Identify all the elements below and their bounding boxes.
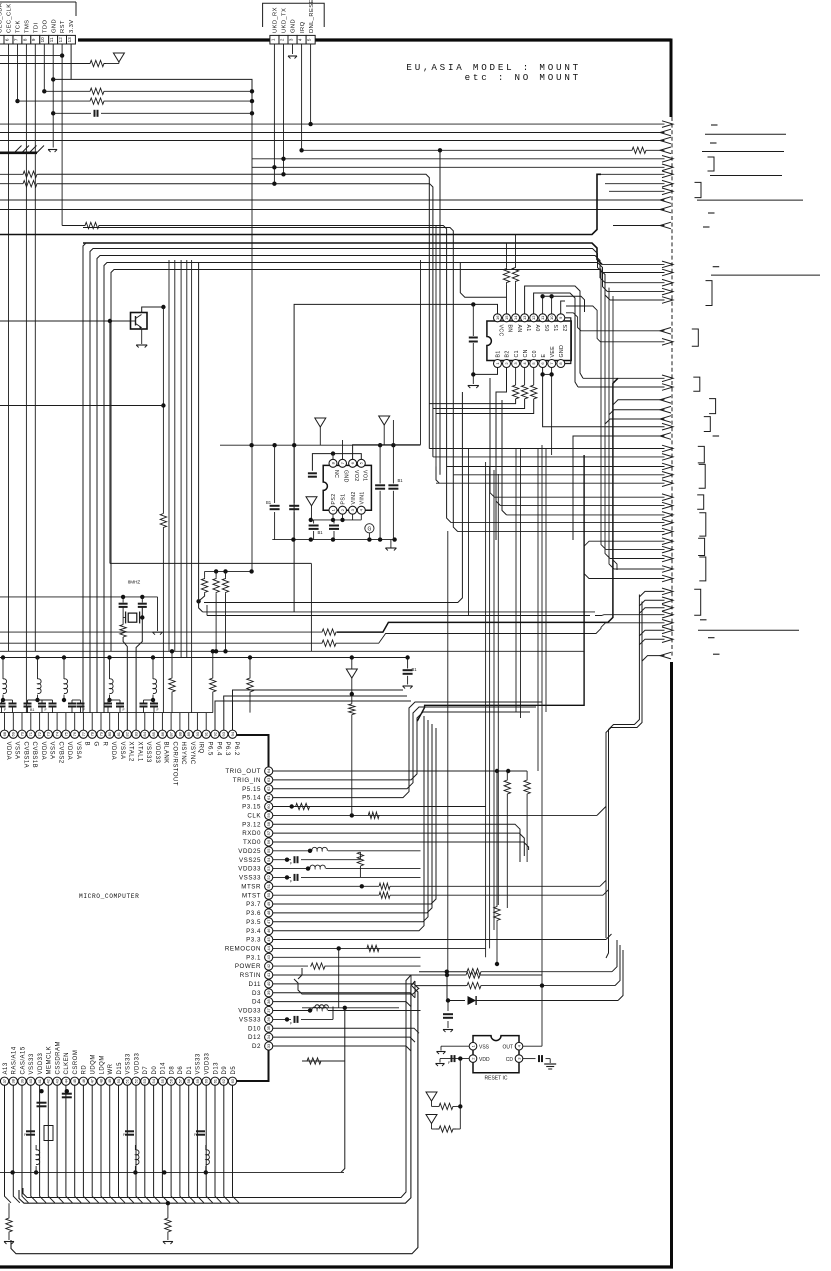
svg-text:D4: D4	[252, 999, 261, 1006]
node junction pin12/row55	[60, 53, 64, 57]
wire row113a	[53, 112, 91, 114]
resistor R_irq	[631, 147, 647, 153]
wire caplink2	[28, 699, 53, 701]
net label mark G8b	[700, 619, 707, 621]
off-page arrow net622	[662, 620, 673, 627]
svg-text:C0: C0	[532, 350, 538, 357]
wire xtal gnd stub	[157, 597, 159, 631]
svg-text:MEMCLK: MEMCLK	[47, 1046, 53, 1075]
wire P5.15	[273, 707, 536, 789]
svg-text:91: 91	[204, 731, 209, 736]
wire CN1 pin11	[52, 44, 54, 148]
power symbol V1	[113, 53, 124, 62]
wire vertical x489	[489, 466, 491, 948]
node j rail a	[291, 537, 295, 541]
wire cap col380b	[379, 491, 381, 540]
wire vertical x520b	[520, 448, 522, 718]
off-page arrow net409	[660, 406, 671, 413]
wire x605 down	[605, 279, 610, 559]
net label bracket G6a	[698, 446, 705, 463]
off-page arrow net456	[662, 454, 673, 461]
node j vss33r	[285, 875, 289, 879]
node j vss25	[285, 858, 289, 862]
svg-text:P5.15: P5.15	[242, 786, 261, 793]
svg-text:CLKEN: CLKEN	[64, 1052, 70, 1075]
svg-text:AN: AN	[516, 325, 522, 333]
node j u2 p7	[549, 372, 553, 376]
resistor R_p15	[503, 267, 509, 284]
node j p315	[290, 804, 294, 808]
svg-text:VSSA: VSSA	[119, 742, 125, 760]
svg-text:8: 8	[22, 38, 27, 41]
svg-text:RST: RST	[60, 20, 66, 33]
wire net522	[447, 467, 665, 523]
node j coil3 bot	[107, 698, 111, 702]
node j rail2 end	[405, 655, 409, 659]
wires U1 bottom pins to bus	[5, 1085, 240, 1202]
wire g8 bundle main	[606, 595, 639, 959]
wire net497	[490, 378, 665, 497]
wire R_p14 dn	[515, 283, 517, 314]
svg-text:NC: NC	[333, 470, 339, 478]
wire D3	[273, 993, 415, 998]
capacitor C_nc	[308, 473, 317, 476]
wire net971	[419, 969, 612, 975]
wire P3.12	[273, 824, 520, 862]
net label bracket G6b	[699, 464, 706, 488]
resistor R_tdo	[88, 88, 106, 94]
wire net531	[453, 475, 664, 532]
wire P3.6	[273, 724, 432, 913]
filter cluster 2	[123, 1131, 139, 1174]
svg-text:64: 64	[266, 768, 271, 773]
wire net1061	[302, 1058, 345, 1064]
wire U2 pin9 up	[561, 301, 565, 314]
node j row101	[15, 99, 19, 103]
ground U4 VDD	[436, 1064, 445, 1067]
svg-text:VCC: VCC	[498, 325, 504, 337]
crystal X1	[123, 612, 142, 624]
node j n985	[540, 983, 544, 987]
inductor L5	[153, 658, 157, 701]
svg-text:75: 75	[63, 731, 68, 736]
svg-text:XTAL1: XTAL1	[136, 742, 142, 763]
wire net558	[610, 558, 665, 560]
wire net615	[207, 605, 590, 616]
wire vertical x109	[109, 321, 111, 563]
wire net474	[453, 474, 664, 476]
svg-text:72: 72	[37, 731, 42, 736]
node j xt1	[121, 595, 125, 599]
svg-text:34: 34	[266, 1034, 271, 1039]
svg-text:XTAL2: XTAL2	[128, 742, 134, 763]
wire peel net639	[639, 639, 664, 645]
svg-text:VO2: VO2	[353, 470, 359, 482]
svg-text:COR/RSTOUT: COR/RSTOUT	[171, 742, 177, 787]
wire net174b	[601, 173, 665, 175]
capacitor Cd9	[116, 700, 126, 713]
node j coil1 bot	[35, 698, 39, 702]
svg-text:PS2: PS2	[331, 493, 337, 504]
svg-text:5: 5	[0, 38, 1, 41]
svg-text:VDDA: VDDA	[110, 742, 116, 761]
node j mtsr	[360, 884, 364, 888]
svg-text:51: 51	[125, 1078, 130, 1083]
wire CN1 pin12	[61, 44, 63, 226]
svg-text:D5: D5	[231, 1066, 237, 1075]
wire xt2 a	[141, 597, 143, 603]
wire net227	[83, 228, 453, 475]
svg-text:89: 89	[186, 731, 191, 736]
svg-text:52: 52	[266, 874, 271, 879]
svg-text:CSROM: CSROM	[73, 1050, 79, 1075]
wire net167	[252, 166, 665, 168]
wire net174	[0, 171, 429, 448]
wire CN2 pin5 DNL_RESET	[310, 44, 312, 124]
capacitor C_u3f	[388, 478, 403, 489]
wire bus v411	[410, 975, 412, 1007]
svg-text:84: 84	[142, 731, 147, 736]
transistor Q1	[131, 313, 148, 330]
svg-text:BN: BN	[507, 325, 513, 333]
off-page arrow net600	[662, 597, 673, 604]
diode D1	[468, 996, 477, 1005]
node j coil0 bot	[1, 698, 5, 702]
svg-text:VSS33: VSS33	[196, 1053, 202, 1074]
svg-text:55: 55	[160, 1078, 165, 1083]
off-page arrow net614	[662, 611, 673, 618]
node j ra3	[223, 649, 227, 653]
node j rail f	[392, 537, 396, 541]
svg-text:WR: WR	[108, 1063, 114, 1074]
op-amp U3 8-pin	[323, 459, 371, 514]
svg-text:B2: B2	[505, 350, 511, 357]
off-page arrow net291	[662, 288, 673, 295]
svg-text:VSS: VSS	[479, 1045, 490, 1051]
svg-text:VDD: VDD	[479, 1057, 490, 1063]
capacitor C_u3b	[289, 506, 299, 509]
svg-text:UKD_RX: UKD_RX	[273, 7, 279, 33]
wire Q1 collector	[142, 307, 164, 313]
off-page arrow net578	[662, 575, 673, 582]
wire net291	[608, 291, 665, 293]
node j2 row113	[250, 111, 254, 115]
svg-text:MTSR: MTSR	[241, 883, 261, 890]
svg-text:14: 14	[513, 315, 518, 320]
wire U4 VSS	[441, 1045, 469, 1047]
svg-text:88: 88	[177, 731, 182, 736]
svg-text:MICRO_COMPUTER: MICRO_COMPUTER	[79, 893, 139, 900]
svg-text:53: 53	[266, 866, 271, 871]
node j coil1 top	[35, 655, 39, 659]
wire bus outer	[11, 986, 418, 1254]
wire bus wrapA	[294, 979, 419, 994]
power symbol V_clk	[346, 658, 357, 679]
wire x584 up	[417, 455, 584, 721]
node j rstin	[445, 973, 449, 977]
wire peel net600	[639, 600, 664, 606]
wire cap col380	[379, 445, 381, 483]
wire VDD33r	[273, 865, 421, 869]
svg-text:33: 33	[266, 1043, 271, 1048]
wire U4 CD gnd	[549, 1059, 551, 1063]
resistor R_to1	[504, 771, 510, 908]
off-page arrow net150	[660, 147, 671, 154]
off-page arrow net191	[662, 188, 673, 195]
wire P6.4 route	[215, 701, 411, 705]
wire bus wrapB	[19, 981, 415, 1203]
svg-text:GND: GND	[51, 19, 57, 33]
wire u2 p6p7	[543, 373, 552, 375]
ground U4 VSS	[437, 1052, 446, 1055]
svg-text:61: 61	[266, 795, 271, 800]
svg-text:RSTIN: RSTIN	[240, 972, 261, 979]
ground CN2	[288, 56, 297, 59]
net label mark G8c	[708, 637, 715, 639]
svg-text:36: 36	[266, 1016, 271, 1021]
node j u3c	[249, 443, 253, 447]
off-page arrow net183	[662, 180, 673, 187]
svg-text:37: 37	[266, 1008, 271, 1013]
svg-text:IRQ: IRQ	[198, 742, 204, 754]
wire x601 down	[601, 269, 606, 550]
wire net622 thick	[0, 378, 618, 635]
inductor L2	[38, 658, 42, 701]
wire net643	[0, 623, 665, 647]
svg-text:6: 6	[4, 38, 9, 41]
svg-text:VDDA: VDDA	[40, 742, 46, 761]
wire U2 vcc	[294, 304, 497, 612]
node j coil3 top	[107, 655, 111, 659]
net label bracket G5a	[709, 399, 716, 414]
wire net419	[605, 419, 665, 424]
svg-text:TDI: TDI	[33, 22, 39, 33]
wire CN1 pin13 3.3V	[70, 44, 72, 79]
svg-text:C1: C1	[514, 350, 520, 357]
U1 top pins	[0, 730, 238, 786]
off-page arrow net399	[660, 397, 671, 404]
svg-text:HSYNC: HSYNC	[180, 742, 186, 766]
node j2 row101	[250, 99, 254, 103]
svg-text:D11: D11	[248, 981, 261, 988]
svg-text:44: 44	[63, 1078, 68, 1083]
wire U2 pin11 up	[542, 296, 544, 314]
resistor R_bot2	[165, 1203, 171, 1240]
off-page arrow net264	[662, 261, 673, 268]
wire xtal top	[0, 596, 158, 598]
capacitor C_u2	[469, 338, 478, 342]
capacitor C_b1	[37, 1090, 47, 1106]
node j vcc cap	[471, 302, 475, 306]
svg-text:A0: A0	[534, 325, 540, 332]
resistor R_row225	[84, 222, 100, 228]
svg-text:3: 3	[289, 38, 294, 41]
wire CN2 pin1	[273, 44, 275, 184]
wire bend bundle left	[0, 146, 44, 154]
svg-text:38: 38	[11, 1078, 16, 1083]
wire CN1 pin10	[43, 44, 45, 91]
wire vertical x447	[447, 531, 449, 975]
svg-text:S1: S1	[552, 325, 558, 332]
wire net124	[0, 123, 665, 125]
filter cluster 1	[24, 1126, 53, 1175]
wire CLK	[273, 814, 597, 816]
node j clkpull	[350, 692, 354, 696]
svg-text:7: 7	[13, 38, 18, 41]
off-page arrow net225	[660, 222, 671, 229]
capacitor C_gnd	[95, 110, 98, 117]
resistor R_cn	[521, 385, 527, 399]
wire net436	[573, 436, 665, 540]
wire cap col394b	[392, 491, 394, 540]
net label mark	[708, 212, 715, 214]
wire vertical x252	[251, 113, 253, 571]
svg-text:B1: B1	[398, 478, 404, 483]
svg-text:CAS/A15: CAS/A15	[20, 1046, 26, 1074]
wire net378	[583, 377, 665, 379]
wire Q1 base	[0, 320, 131, 322]
svg-text:R: R	[101, 742, 107, 747]
U1 bottom pins	[0, 1041, 236, 1085]
node j 1172a	[10, 1170, 14, 1174]
svg-text:53: 53	[142, 1078, 147, 1083]
svg-text:1: 1	[270, 38, 275, 41]
off-page arrow net387	[662, 384, 673, 391]
wire row403	[429, 399, 515, 404]
node j rail d	[367, 537, 371, 541]
wire peel net591	[639, 591, 664, 597]
capacitor Cd6	[68, 700, 76, 713]
wire cap col294	[293, 445, 295, 503]
capacitor C_u3d	[329, 526, 339, 529]
wire net248	[90, 249, 603, 713]
net label underline	[702, 151, 784, 153]
off-page arrow net448	[662, 445, 673, 452]
svg-text:47: 47	[90, 1078, 95, 1083]
svg-text:61: 61	[212, 1078, 217, 1083]
wire net514	[502, 400, 665, 515]
wire row408	[433, 399, 525, 409]
wire net1007	[302, 1005, 399, 1008]
off-page arrow net436	[660, 433, 671, 440]
svg-text:76: 76	[72, 731, 77, 736]
wire U2 pin10 up	[551, 296, 553, 314]
off-page arrow net174	[662, 171, 673, 178]
svg-text:IRQ: IRQ	[300, 21, 306, 33]
svg-text:40: 40	[28, 1078, 33, 1083]
off-page arrow net483	[662, 480, 673, 487]
wire REMOCON	[273, 947, 486, 949]
svg-text:11: 11	[49, 37, 54, 42]
svg-text:12: 12	[531, 315, 536, 320]
wire vertical x181	[180, 260, 182, 658]
net label bracket G7c	[698, 538, 705, 555]
wire P3.7	[273, 728, 436, 904]
wire U4 OUT	[523, 986, 542, 1047]
svg-text:P6.5: P6.5	[207, 742, 213, 757]
wire RSTIN	[273, 972, 542, 978]
node j coil0 top	[1, 655, 5, 659]
svg-text:D2: D2	[252, 1043, 261, 1050]
wire CN1 pin8	[25, 44, 27, 713]
wire U2 pin5 dn	[533, 368, 535, 386]
svg-text:REMOCON: REMOCON	[225, 946, 261, 953]
wire U2 pin13 up	[525, 286, 583, 378]
svg-text:P3.5: P3.5	[246, 919, 261, 926]
sheet boundary dashed	[671, 117, 673, 658]
node j r571a	[214, 569, 218, 573]
svg-text:79: 79	[98, 731, 103, 736]
node j to2	[506, 769, 510, 773]
wire U2 pin4 dn	[524, 368, 526, 386]
wire cap x448	[447, 1001, 449, 1012]
wire row91a	[44, 90, 88, 92]
node j vdd25	[308, 849, 312, 853]
wire U3 pin3 dn	[352, 514, 354, 520]
wire net611	[203, 611, 595, 613]
svg-text:TCK: TCK	[16, 20, 22, 33]
svg-text:57: 57	[266, 830, 271, 835]
svg-text:CVBS2: CVBS2	[57, 742, 63, 764]
svg-text:83: 83	[133, 731, 138, 736]
svg-text:VDD33: VDD33	[134, 1052, 140, 1074]
svg-text:etc : NO MOUNT: etc : NO MOUNT	[465, 72, 581, 83]
capacitor Cd3	[24, 700, 35, 713]
svg-text:CVBS1A: CVBS1A	[22, 742, 28, 769]
capacitor C_rst	[443, 1014, 453, 1018]
svg-text:VSS33: VSS33	[239, 875, 261, 882]
off-page arrow net607	[662, 605, 673, 612]
svg-text:52: 52	[133, 1078, 138, 1083]
svg-text:P3.6: P3.6	[246, 910, 261, 917]
svg-text:77: 77	[81, 731, 86, 736]
wire U3 top rail	[220, 444, 421, 446]
svg-text:D6: D6	[178, 1066, 184, 1075]
node j vclk rail	[350, 655, 354, 659]
svg-text:S0: S0	[543, 325, 549, 332]
wire VDD25	[273, 847, 421, 851]
wire net269a	[111, 270, 610, 652]
svg-text:VDD33: VDD33	[205, 1052, 211, 1074]
capacitor C_u3e	[375, 485, 385, 488]
resistor R_mtst	[273, 892, 603, 898]
svg-text:S2: S2	[561, 325, 567, 332]
node j v_u3	[309, 518, 313, 522]
wire CN2 pin2	[283, 44, 285, 174]
svg-text:VSS33: VSS33	[239, 1017, 261, 1024]
resistor R_to2	[524, 771, 530, 862]
svg-text:A1: A1	[525, 325, 531, 332]
svg-text:GND: GND	[559, 345, 565, 358]
node j to1	[495, 769, 499, 773]
wire CN2 pin3 GND	[292, 44, 294, 54]
wire net985	[415, 982, 615, 988]
capacitor Cd8	[104, 700, 112, 713]
wire net483 stub	[436, 467, 439, 484]
ground C_rst	[443, 1030, 453, 1033]
svg-text:TMS: TMS	[25, 20, 31, 33]
net label underline	[705, 133, 786, 135]
wire U4 VDD	[440, 1055, 469, 1065]
wire P3.4	[273, 716, 424, 931]
svg-text:VDD33: VDD33	[154, 742, 160, 764]
off-page arrow net282	[662, 279, 673, 286]
off-page arrow net158	[662, 156, 673, 163]
net label underline	[710, 175, 782, 177]
resistor R_c0	[531, 385, 537, 399]
off-page arrow net522	[662, 519, 673, 526]
wire vertical x546	[545, 448, 547, 712]
